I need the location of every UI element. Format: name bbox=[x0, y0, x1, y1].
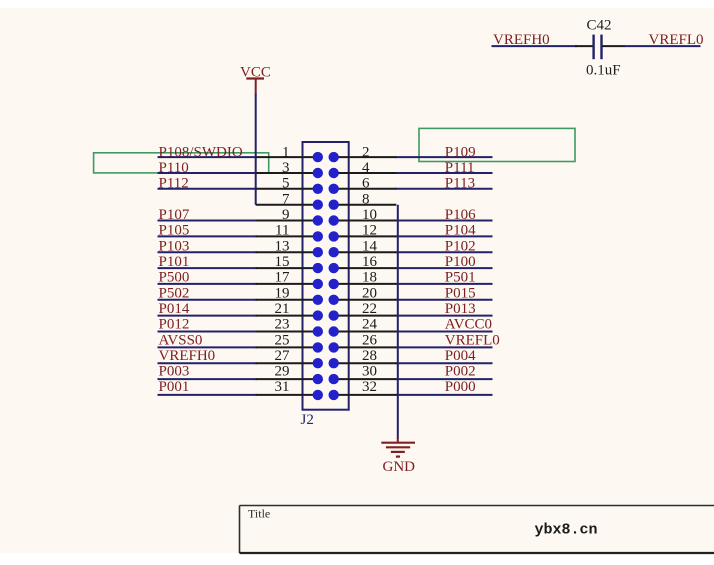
green highlight box around net P110 bbox=[94, 153, 269, 173]
wire P001 (left row, pin 31) bbox=[158, 394, 257, 396]
wire P100 (right row, pin 16) bbox=[395, 267, 492, 269]
pin 23 bbox=[256, 331, 318, 333]
svg-text:P501: P501 bbox=[445, 270, 476, 286]
title block border bbox=[240, 506, 714, 554]
svg-text:2: 2 bbox=[362, 144, 370, 160]
pin 32 dot bbox=[329, 390, 339, 400]
svg-text:P100: P100 bbox=[445, 254, 476, 270]
pin 2 dot bbox=[329, 152, 339, 162]
svg-text:P001: P001 bbox=[159, 379, 190, 395]
wire VREFH0 (net to C42 left) bbox=[492, 45, 578, 47]
pin 21 dot bbox=[313, 310, 323, 320]
pin 8 dot bbox=[329, 200, 339, 210]
pin 25 dot bbox=[313, 342, 323, 352]
ground symbol GND bbox=[381, 438, 415, 475]
pin 25 bbox=[256, 346, 318, 348]
pin 26 dot bbox=[329, 342, 339, 352]
pin 24 dot bbox=[329, 326, 339, 336]
svg-text:P003: P003 bbox=[159, 364, 190, 380]
wire P015 (right row, pin 20) bbox=[395, 299, 492, 301]
svg-text:P108/SWDIO: P108/SWDIO bbox=[159, 144, 243, 160]
svg-text:12: 12 bbox=[362, 223, 377, 239]
pin 7 dot bbox=[313, 200, 323, 210]
pin 5 bbox=[256, 188, 318, 190]
svg-text:P110: P110 bbox=[159, 160, 189, 176]
wire P002 (right row, pin 30) bbox=[395, 378, 492, 380]
svg-text:5: 5 bbox=[282, 176, 290, 192]
svg-text:C42: C42 bbox=[587, 18, 612, 34]
pin 27 bbox=[256, 362, 318, 364]
svg-text:31: 31 bbox=[275, 379, 290, 395]
wire P104 (right row, pin 12) bbox=[395, 235, 492, 237]
pin 20 bbox=[334, 299, 397, 301]
svg-text:GND: GND bbox=[383, 459, 416, 475]
pin 11 dot bbox=[313, 231, 323, 241]
svg-text:19: 19 bbox=[275, 285, 290, 301]
wire P012 (left row, pin 23) bbox=[158, 331, 257, 333]
pin 21 bbox=[256, 315, 318, 317]
wire P000 (right row, pin 32) bbox=[395, 394, 492, 396]
svg-text:16: 16 bbox=[362, 254, 378, 270]
pin 9 dot bbox=[313, 215, 323, 225]
svg-text:J2: J2 bbox=[301, 412, 314, 428]
svg-text:ybx8.cn: ybx8.cn bbox=[535, 522, 598, 539]
svg-text:P101: P101 bbox=[159, 254, 190, 270]
wire P107 (left row, pin 9) bbox=[158, 220, 257, 222]
capacitor C42 bbox=[594, 35, 602, 60]
svg-text:P113: P113 bbox=[445, 176, 475, 192]
wire P105 (left row, pin 11) bbox=[158, 235, 257, 237]
svg-text:20: 20 bbox=[362, 285, 377, 301]
svg-text:4: 4 bbox=[362, 160, 370, 176]
connector J2 body bbox=[303, 142, 349, 410]
capacitor C42 pin 1 bbox=[575, 45, 593, 47]
svg-text:30: 30 bbox=[362, 364, 377, 380]
wire P103 (left row, pin 13) bbox=[158, 251, 257, 253]
pin 3 dot bbox=[313, 168, 323, 178]
svg-text:32: 32 bbox=[362, 379, 377, 395]
pin 31 dot bbox=[313, 390, 323, 400]
svg-text:26: 26 bbox=[362, 332, 378, 348]
svg-text:6: 6 bbox=[362, 176, 370, 192]
svg-text:P109: P109 bbox=[445, 144, 476, 160]
pin 28 dot bbox=[329, 358, 339, 368]
svg-text:AVSS0: AVSS0 bbox=[159, 332, 203, 348]
wire P110 (left row, pin 3) bbox=[158, 172, 257, 174]
svg-text:23: 23 bbox=[275, 317, 290, 333]
svg-text:10: 10 bbox=[362, 207, 377, 223]
svg-text:1: 1 bbox=[282, 144, 290, 160]
pin 15 bbox=[256, 267, 318, 269]
pin 18 bbox=[334, 283, 397, 285]
pin 8 bbox=[334, 204, 397, 206]
svg-text:15: 15 bbox=[275, 254, 290, 270]
wire AVCC0 (right row, pin 24) bbox=[395, 331, 492, 333]
wire P113 (right row, pin 6) bbox=[395, 188, 492, 190]
wire P500 (left row, pin 17) bbox=[158, 283, 257, 285]
wire P112 (left row, pin 5) bbox=[158, 188, 257, 190]
pin 14 bbox=[334, 251, 397, 253]
pin 4 dot bbox=[329, 168, 339, 178]
svg-text:13: 13 bbox=[275, 238, 290, 254]
wire AVSS0 (left row, pin 25) bbox=[158, 346, 257, 348]
pin 13 dot bbox=[313, 247, 323, 257]
wire P101 (left row, pin 15) bbox=[158, 267, 257, 269]
pin 30 bbox=[334, 378, 397, 380]
svg-text:P107: P107 bbox=[159, 207, 190, 223]
pin 22 dot bbox=[329, 310, 339, 320]
svg-text:P106: P106 bbox=[445, 207, 476, 223]
pin 3 bbox=[256, 172, 318, 174]
svg-text:25: 25 bbox=[275, 332, 290, 348]
pin 31 bbox=[256, 394, 318, 396]
svg-text:VREFL0: VREFL0 bbox=[445, 332, 500, 348]
wire VREFH0 (left row, pin 27) bbox=[158, 362, 257, 364]
pin 32 bbox=[334, 394, 397, 396]
pin 19 bbox=[256, 299, 318, 301]
pin 4 bbox=[334, 172, 397, 174]
svg-text:VREFH0: VREFH0 bbox=[493, 32, 550, 48]
pin 16 bbox=[334, 267, 397, 269]
pin 10 bbox=[334, 220, 397, 222]
svg-text:P013: P013 bbox=[445, 301, 476, 317]
pin 2 bbox=[334, 156, 397, 158]
svg-text:27: 27 bbox=[275, 348, 291, 364]
pin 30 dot bbox=[329, 374, 339, 384]
svg-text:P002: P002 bbox=[445, 364, 476, 380]
power symbol VCC bbox=[240, 65, 271, 96]
pin 14 dot bbox=[329, 247, 339, 257]
pin 11 bbox=[256, 235, 318, 237]
green highlight box around net P109 bbox=[419, 128, 575, 161]
pin 28 bbox=[334, 362, 397, 364]
svg-text:P012: P012 bbox=[159, 317, 190, 333]
wire P003 (left row, pin 29) bbox=[158, 378, 257, 380]
svg-text:P014: P014 bbox=[159, 301, 190, 317]
wire pin 8 to GND (vertical) bbox=[397, 205, 399, 439]
svg-text:P502: P502 bbox=[159, 285, 190, 301]
svg-text:P105: P105 bbox=[159, 223, 190, 239]
svg-text:VREFH0: VREFH0 bbox=[159, 348, 216, 364]
pin 27 dot bbox=[313, 358, 323, 368]
pin 1 dot bbox=[313, 152, 323, 162]
svg-text:29: 29 bbox=[275, 364, 290, 380]
svg-text:9: 9 bbox=[282, 207, 290, 223]
wire VREFL0 (net from C42 right) bbox=[624, 45, 701, 47]
svg-text:7: 7 bbox=[282, 191, 290, 207]
svg-text:11: 11 bbox=[275, 223, 289, 239]
svg-text:P104: P104 bbox=[445, 223, 476, 239]
pin 12 dot bbox=[329, 231, 339, 241]
wire P106 (right row, pin 10) bbox=[395, 220, 492, 222]
svg-text:P103: P103 bbox=[159, 238, 190, 254]
pin 12 bbox=[334, 235, 397, 237]
pin 1 bbox=[256, 156, 318, 158]
pin 18 dot bbox=[329, 279, 339, 289]
svg-text:Title: Title bbox=[248, 507, 270, 521]
svg-text:P015: P015 bbox=[445, 285, 476, 301]
pin 5 dot bbox=[313, 184, 323, 194]
wire P013 (right row, pin 22) bbox=[395, 315, 492, 317]
pin 7 bbox=[256, 204, 318, 206]
pin 24 bbox=[334, 331, 397, 333]
svg-text:14: 14 bbox=[362, 238, 378, 254]
svg-text:21: 21 bbox=[275, 301, 290, 317]
pin 29 dot bbox=[313, 374, 323, 384]
wire P111 (right row, pin 4) bbox=[395, 172, 492, 174]
pin 22 bbox=[334, 315, 397, 317]
svg-text:0.1uF: 0.1uF bbox=[586, 63, 621, 79]
pin 6 bbox=[334, 188, 397, 190]
svg-text:AVCC0: AVCC0 bbox=[445, 317, 492, 333]
svg-text:VCC: VCC bbox=[240, 65, 271, 81]
svg-text:P004: P004 bbox=[445, 348, 476, 364]
svg-text:P111: P111 bbox=[445, 160, 475, 176]
pin 9 bbox=[256, 220, 318, 222]
pin 13 bbox=[256, 251, 318, 253]
pin 19 dot bbox=[313, 295, 323, 305]
capacitor C42 pin 2 bbox=[602, 45, 625, 47]
svg-text:P102: P102 bbox=[445, 238, 476, 254]
wire P502 (left row, pin 19) bbox=[158, 299, 257, 301]
svg-text:17: 17 bbox=[275, 270, 291, 286]
wire P004 (right row, pin 28) bbox=[395, 362, 492, 364]
svg-text:28: 28 bbox=[362, 348, 377, 364]
svg-text:P112: P112 bbox=[159, 176, 189, 192]
pin 26 bbox=[334, 346, 397, 348]
svg-text:18: 18 bbox=[362, 270, 377, 286]
svg-text:3: 3 bbox=[282, 160, 290, 176]
pin 6 dot bbox=[329, 184, 339, 194]
wire P014 (left row, pin 21) bbox=[158, 315, 257, 317]
svg-text:P500: P500 bbox=[159, 270, 190, 286]
pin 15 dot bbox=[313, 263, 323, 273]
pin 17 dot bbox=[313, 279, 323, 289]
svg-text:24: 24 bbox=[362, 317, 378, 333]
pin 20 dot bbox=[329, 295, 339, 305]
wire P102 (right row, pin 14) bbox=[395, 251, 492, 253]
wire VREFL0 (right row, pin 26) bbox=[395, 346, 492, 348]
wire VCC to pin 7 bbox=[255, 94, 257, 205]
pin 16 dot bbox=[329, 263, 339, 273]
pin 29 bbox=[256, 378, 318, 380]
wire P109 (right row, pin 2) bbox=[395, 156, 492, 158]
wire P501 (right row, pin 18) bbox=[395, 283, 492, 285]
svg-text:VREFL0: VREFL0 bbox=[649, 32, 704, 48]
pin 10 dot bbox=[329, 215, 339, 225]
svg-text:22: 22 bbox=[362, 301, 377, 317]
pin 17 bbox=[256, 283, 318, 285]
svg-text:8: 8 bbox=[362, 191, 370, 207]
pin 23 dot bbox=[313, 326, 323, 336]
svg-text:P000: P000 bbox=[445, 379, 476, 395]
wire P108/SWDIO (left row, pin 1) bbox=[158, 156, 257, 158]
